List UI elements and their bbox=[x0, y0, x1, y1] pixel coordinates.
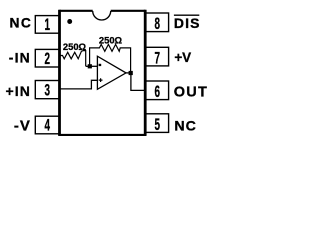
svg-text:-V: -V bbox=[14, 118, 31, 135]
pin box 6 bbox=[145, 81, 168, 100]
svg-text:8: 8 bbox=[155, 14, 161, 32]
pin box 8 bbox=[145, 13, 168, 32]
svg-text:+IN: +IN bbox=[6, 83, 31, 99]
svg-text:OUT: OUT bbox=[174, 84, 209, 100]
svg-text:6: 6 bbox=[155, 82, 161, 100]
svg-text:DIS: DIS bbox=[174, 15, 201, 31]
svg-text:2: 2 bbox=[44, 49, 50, 67]
wire: op-amp output to node B bbox=[126, 72, 132, 74]
junction node B (output / feedback) bbox=[129, 71, 133, 75]
pin box 1 bbox=[35, 16, 59, 34]
wire: R1 to op-amp inverting input bbox=[86, 65, 98, 67]
pin box 5 bbox=[145, 114, 168, 133]
svg-text:NC: NC bbox=[174, 118, 197, 134]
resistor R2 250 ohm (feedback) bbox=[90, 44, 131, 71]
svg-text:-IN: -IN bbox=[9, 50, 31, 66]
pin-1 dot marker bbox=[67, 19, 72, 24]
index notch at top of package bbox=[93, 11, 111, 20]
svg-text:1: 1 bbox=[44, 16, 50, 34]
minus sign (inverting input) bbox=[99, 64, 102, 66]
junction node A (inverting input / feedback tap) bbox=[88, 64, 92, 68]
wire: node B down and right to OUT (pin 6) bbox=[131, 73, 145, 91]
resistor R1 250 ohm (input, from pin 2) bbox=[60, 51, 85, 67]
pin box 2 bbox=[35, 49, 59, 67]
pin box 3 bbox=[35, 81, 59, 99]
plus sign (non-inverting input) bbox=[99, 78, 103, 82]
wire: +IN (pin 3) to op-amp non-inverting input bbox=[60, 80, 98, 89]
pin box 4 bbox=[35, 116, 59, 134]
overline for DIS bbox=[174, 14, 199, 16]
svg-text:+V: +V bbox=[174, 50, 191, 65]
svg-text:5: 5 bbox=[155, 115, 161, 133]
pin box 7 bbox=[145, 47, 168, 66]
svg-text:250Ω: 250Ω bbox=[99, 35, 123, 46]
op-amp U1A triangle bbox=[97, 56, 126, 89]
svg-text:4: 4 bbox=[44, 116, 50, 134]
svg-text:7: 7 bbox=[155, 49, 161, 67]
IC package body U1 (8-pin DIP outline) bbox=[58, 10, 146, 135]
svg-text:NC: NC bbox=[9, 16, 32, 31]
svg-text:3: 3 bbox=[44, 81, 50, 99]
svg-text:250Ω: 250Ω bbox=[63, 41, 87, 52]
